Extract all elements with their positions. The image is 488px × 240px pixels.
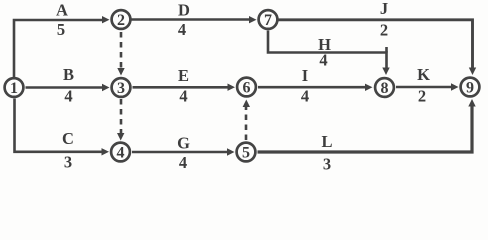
node 7 [259, 10, 278, 29]
wire activity A path 1 to 2 [14, 16, 110, 77]
label I value 4 [301, 66, 309, 106]
wire activity K path 8 to 9 [396, 83, 459, 90]
svg-text:9: 9 [466, 80, 474, 97]
label J value 2 [380, 0, 388, 40]
svg-text:3: 3 [323, 155, 331, 174]
svg-text:4: 4 [64, 87, 72, 106]
svg-text:3: 3 [64, 153, 72, 172]
wire activity H path 7 to 8 [268, 31, 390, 76]
dummy arrow 5 to 6 dashed [243, 100, 250, 141]
node 4 [111, 143, 130, 162]
node 6 [237, 78, 256, 97]
wire activity E path 3 to 6 [133, 84, 236, 91]
node 3 [112, 78, 131, 97]
svg-text:4: 4 [179, 87, 187, 106]
svg-text:5: 5 [242, 145, 250, 162]
label E value 4 [178, 66, 189, 106]
svg-text:E: E [178, 66, 189, 85]
wire activity C path 1 to 4 [15, 99, 110, 156]
svg-text:3: 3 [117, 80, 125, 97]
svg-text:I: I [302, 66, 308, 85]
svg-text:K: K [417, 65, 430, 84]
svg-text:1: 1 [10, 80, 18, 97]
label L value 3 [321, 132, 332, 174]
label K value 2 [417, 65, 430, 106]
label G value 4 [177, 134, 190, 173]
svg-text:L: L [321, 132, 332, 151]
svg-text:4: 4 [178, 20, 186, 39]
label D value 4 [178, 1, 190, 40]
svg-text:D: D [178, 1, 190, 20]
svg-text:2: 2 [418, 87, 426, 106]
node 1 [5, 78, 24, 97]
svg-text:2: 2 [380, 21, 388, 40]
node 8 [375, 78, 394, 97]
svg-text:8: 8 [381, 80, 389, 97]
svg-text:2: 2 [117, 12, 125, 29]
svg-text:5: 5 [57, 20, 65, 39]
label H value 4 [318, 35, 331, 70]
wire activity J path 7 to 9 [279, 20, 477, 75]
svg-text:6: 6 [243, 80, 251, 97]
svg-text:C: C [62, 129, 74, 148]
wire activity D path 2 to 7 [132, 16, 257, 23]
label A value 5 [56, 1, 68, 40]
node 2 [112, 10, 131, 29]
svg-text:4: 4 [117, 145, 125, 162]
svg-text:B: B [63, 65, 74, 84]
svg-text:J: J [380, 0, 388, 18]
svg-text:7: 7 [264, 12, 272, 29]
label C value 3 [62, 129, 74, 172]
svg-text:4: 4 [319, 51, 327, 70]
node 9 [461, 78, 480, 97]
dummy arrow 2 to 3 dashed [117, 32, 124, 76]
wire activity L path 5 to 9 [258, 99, 476, 152]
svg-text:4: 4 [301, 87, 309, 106]
node 5 [237, 143, 256, 162]
wire activity B path 1 to 3 [26, 84, 110, 91]
svg-text:A: A [56, 1, 68, 20]
wire activity I path 6 to 8 [258, 84, 373, 91]
dummy arrow 3 to 4 dashed [117, 99, 124, 141]
wire activity G path 4 to 5 [132, 148, 235, 155]
svg-text:G: G [177, 134, 190, 153]
label B value 4 [63, 65, 74, 106]
svg-text:4: 4 [179, 153, 187, 172]
